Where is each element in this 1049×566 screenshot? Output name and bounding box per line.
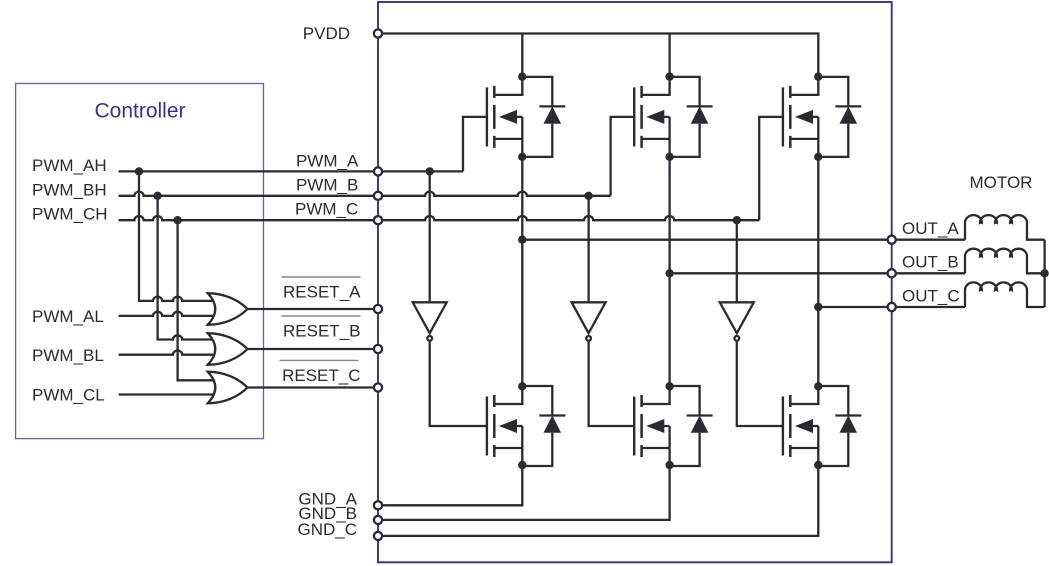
pin GND_A: [374, 501, 382, 509]
pin PWM_A: [374, 167, 382, 175]
diode D2 (body diode of Q2 (high-side B)): [670, 77, 713, 157]
wire GND_C: [378, 465, 818, 536]
overline RESET_C: [280, 359, 359, 361]
wire drop PWM_AH to OR1: [139, 171, 214, 301]
junction Q6 drain node: [814, 382, 822, 390]
label PVDD: [303, 24, 350, 43]
wire half-bridge B mid: [668, 157, 670, 386]
inverter U5 (phase B): [572, 302, 606, 341]
wire inverter C output to Q6 gate: [737, 342, 783, 426]
junction PWM_BH junction: [153, 192, 161, 200]
label PWM_CL: [32, 386, 105, 405]
overline RESET_B: [282, 315, 361, 317]
label GND_B: [298, 504, 357, 523]
svg-text:PWM_CH: PWM_CH: [32, 205, 108, 224]
svg-text:RESET_A: RESET_A: [283, 283, 361, 302]
junction PWM_AH junction: [135, 167, 143, 175]
pin OUT_C: [888, 303, 896, 311]
svg-text:OUT_C: OUT_C: [902, 287, 960, 306]
pin PWM_C: [374, 216, 382, 224]
diode D5 (body diode of Q5 (low-side B)): [670, 386, 713, 466]
wire half-bridge C mid: [817, 157, 819, 386]
wire inverter A input: [429, 171, 431, 302]
wire gate lead Q1: [463, 117, 487, 171]
wire rail drop B: [668, 34, 670, 77]
OR gate U2: [208, 333, 248, 364]
svg-text:PVDD: PVDD: [303, 24, 350, 43]
wire PWM_BL: [119, 351, 214, 355]
label PWM_BL: [32, 346, 104, 365]
wire OUT_A: [522, 239, 965, 241]
svg-text:MOTOR: MOTOR: [970, 173, 1033, 192]
transistor Q3 (high-side C): [783, 77, 818, 157]
transistor Q1 (high-side A): [487, 77, 522, 157]
controller box: [16, 84, 264, 439]
svg-text:PWM_BH: PWM_BH: [32, 180, 107, 199]
pin OUT_A: [888, 236, 896, 244]
wire GND_A: [378, 465, 522, 505]
wire inductor L2 (OUT_B): [965, 249, 1045, 274]
wire RESET_B: [247, 348, 378, 350]
junction PWM_A junction: [426, 167, 434, 175]
wire half-bridge A mid: [521, 157, 523, 386]
label GND_C: [297, 520, 357, 539]
svg-text:Controller: Controller: [94, 100, 185, 123]
label RESET_A: [283, 283, 361, 302]
junction Q3 source node: [814, 153, 822, 161]
label OUT_A: [902, 219, 959, 238]
transistor Q4 (low-side A): [487, 386, 522, 466]
OR gate U3: [208, 372, 248, 403]
wire PVDD rail: [378, 34, 818, 77]
wire RESET_C: [247, 386, 378, 388]
pin RESET_A: [374, 305, 382, 313]
wire RESET_A: [247, 308, 378, 310]
junction motor neutral node: [1040, 269, 1048, 277]
label RESET_B: [283, 322, 360, 341]
wire inverter A output to Q4 gate: [430, 342, 487, 426]
svg-text:PWM_BL: PWM_BL: [32, 346, 104, 365]
label MOTOR: [970, 173, 1033, 192]
junction Q2 drain node: [665, 72, 673, 80]
wire PWM_BH / PWM_B: [119, 192, 611, 196]
wire inverter C input: [736, 220, 738, 302]
junction node OUT_B: [665, 269, 673, 277]
diode D6 (body diode of Q6 (low-side C)): [818, 386, 861, 466]
wire inverter B output to Q5 gate: [589, 342, 635, 426]
junction Q6 source node: [814, 461, 822, 469]
diode D1 (body diode of Q1 (high-side A)): [522, 77, 565, 157]
wire PWM_CL: [119, 393, 214, 395]
junction Q4 source node: [518, 461, 526, 469]
svg-text:OUT_B: OUT_B: [902, 253, 959, 272]
label RESET_C: [282, 366, 360, 385]
junction PWM_C junction: [733, 216, 741, 224]
wire OUT_B: [670, 272, 965, 274]
wire gate lead Q3: [759, 117, 783, 220]
wire inductor L3 (OUT_C): [965, 282, 1045, 307]
label PWM_BH: [32, 180, 107, 199]
inverter U4 (phase A): [413, 302, 447, 341]
diode D4 (body diode of Q4 (low-side A)): [522, 386, 565, 466]
junction PWM_B junction: [584, 192, 592, 200]
wire gate lead Q2: [611, 117, 635, 196]
pin PWM_B: [374, 192, 382, 200]
svg-text:PWM_C: PWM_C: [295, 200, 358, 219]
wire OUT_C: [818, 306, 965, 308]
driver IC box: [378, 2, 892, 562]
label PWM_CH: [32, 205, 108, 224]
label PWM_AH: [32, 156, 107, 175]
junction Q5 drain node: [665, 382, 673, 390]
svg-text:PWM_A: PWM_A: [296, 152, 359, 171]
transistor Q2 (high-side B): [634, 77, 669, 157]
label Controller: [94, 100, 185, 123]
svg-text:GND_C: GND_C: [297, 520, 357, 539]
wire PWM_AL: [119, 312, 214, 316]
label OUT_B: [902, 253, 959, 272]
svg-text:RESET_B: RESET_B: [283, 322, 360, 341]
wire motor neutral bus: [1043, 240, 1045, 307]
wire PWM_CH / PWM_C: [119, 216, 760, 220]
junction PWM_CH junction: [173, 216, 181, 224]
svg-text:OUT_A: OUT_A: [902, 219, 959, 238]
wire drop PWM_BH to OR2: [158, 196, 214, 340]
OR gate U1: [208, 293, 248, 324]
pin RESET_C: [374, 383, 382, 391]
junction Q1 source node: [518, 153, 526, 161]
inverter U6 (phase C): [720, 302, 754, 341]
pin RESET_B: [374, 345, 382, 353]
label OUT_C: [902, 287, 960, 306]
junction Q1 drain node: [518, 72, 526, 80]
svg-text:PWM_AL: PWM_AL: [32, 307, 104, 326]
wire drop PWM_CH to OR3: [178, 220, 214, 380]
junction Q3 drain node: [814, 72, 822, 80]
junction node OUT_C: [814, 303, 822, 311]
transistor Q5 (low-side B): [634, 386, 669, 466]
label PWM_C: [295, 200, 358, 219]
svg-text:PWM_CL: PWM_CL: [32, 386, 105, 405]
junction Q4 drain node: [518, 382, 526, 390]
junction node OUT_A: [518, 236, 526, 244]
svg-text:RESET_C: RESET_C: [282, 366, 360, 385]
pin GND_C: [374, 532, 382, 540]
label PWM_A: [296, 152, 359, 171]
svg-text:PWM_AH: PWM_AH: [32, 156, 107, 175]
wire GND_B: [378, 465, 670, 520]
transistor Q6 (low-side C): [783, 386, 818, 466]
label PWM_B: [296, 176, 358, 195]
pin GND_B: [374, 516, 382, 524]
svg-text:PWM_B: PWM_B: [296, 176, 358, 195]
wire inductor L1 (OUT_A): [965, 215, 1045, 240]
overline RESET_A: [282, 276, 361, 278]
wire rail drop A: [521, 34, 523, 77]
pin OUT_B: [888, 269, 896, 277]
label PWM_AL: [32, 307, 104, 326]
label GND_A: [298, 490, 357, 509]
junction Q2 source node: [665, 153, 673, 161]
diode D3 (body diode of Q3 (high-side C)): [818, 77, 861, 157]
wire PWM_AH / PWM_A: [119, 170, 463, 172]
pin PVDD: [374, 29, 382, 37]
wire inverter B input: [587, 196, 589, 302]
junction Q5 source node: [665, 461, 673, 469]
